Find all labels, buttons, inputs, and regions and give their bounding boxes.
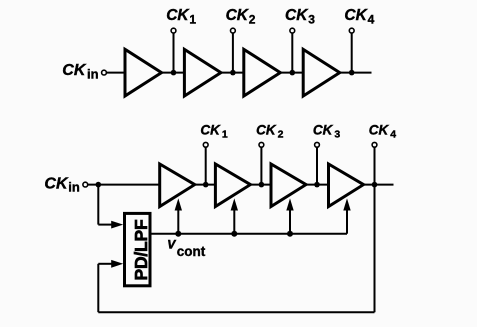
svg-text:2: 2 (278, 129, 284, 141)
svg-text:CK: CK (313, 123, 334, 138)
svg-text:PD/LPF: PD/LPF (131, 219, 151, 281)
svg-text:CK: CK (285, 7, 309, 24)
svg-text:3: 3 (308, 13, 315, 27)
svg-text:CK: CK (369, 123, 390, 138)
svg-text:CK: CK (166, 7, 190, 24)
svg-text:4: 4 (390, 129, 396, 141)
svg-text:CK: CK (44, 175, 69, 192)
svg-text:1: 1 (222, 129, 228, 141)
svg-text:CK: CK (200, 123, 221, 138)
svg-text:in: in (68, 179, 80, 194)
svg-text:2: 2 (249, 13, 256, 27)
svg-text:CK: CK (344, 7, 368, 24)
svg-text:CK: CK (256, 123, 277, 138)
svg-text:in: in (87, 67, 99, 82)
svg-text:CK: CK (62, 62, 87, 79)
svg-text:3: 3 (334, 129, 340, 141)
svg-text:V: V (167, 238, 176, 252)
svg-text:4: 4 (368, 13, 375, 27)
svg-text:cont: cont (177, 244, 206, 259)
svg-text:CK: CK (226, 7, 250, 24)
svg-text:1: 1 (189, 13, 196, 27)
